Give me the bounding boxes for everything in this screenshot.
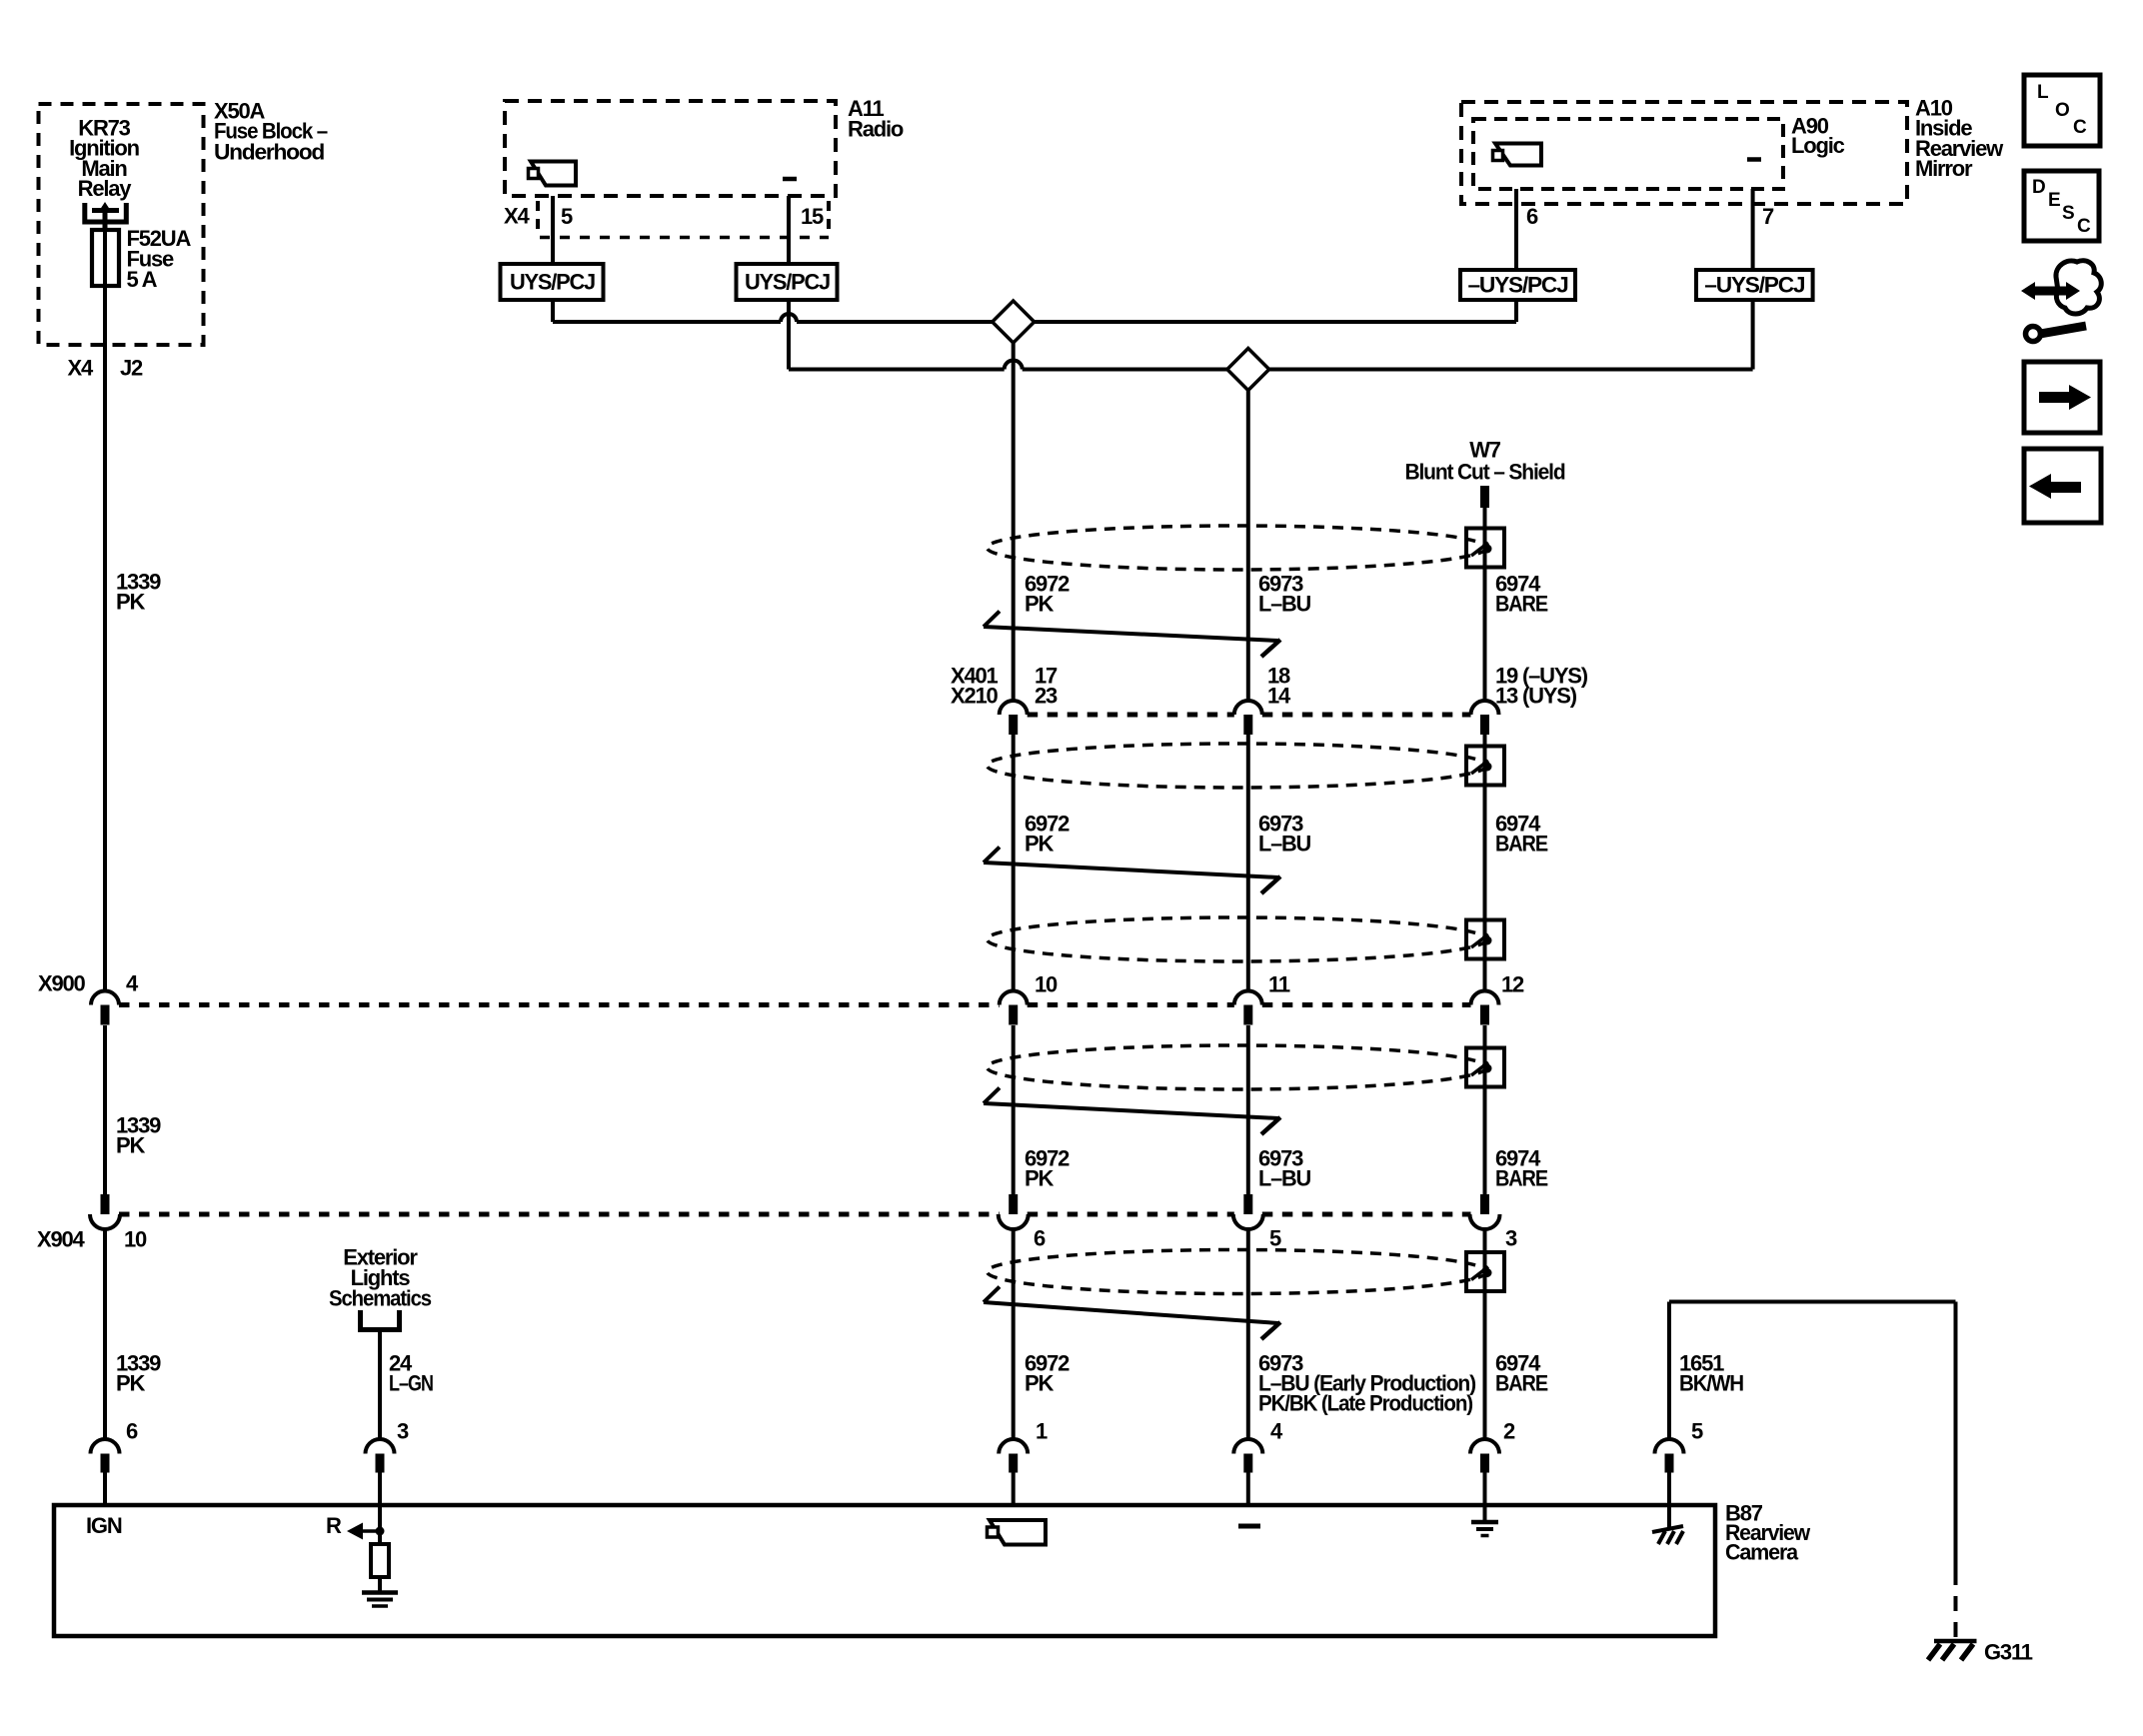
svg-text:G311: G311	[1984, 1639, 2033, 1664]
svg-text:BARE: BARE	[1495, 1370, 1547, 1395]
svg-text:PK: PK	[1025, 1165, 1054, 1190]
svg-text:3: 3	[1505, 1225, 1517, 1250]
svg-text:Logic: Logic	[1791, 133, 1845, 158]
svg-text:BK/WH: BK/WH	[1679, 1370, 1743, 1395]
svg-text:1: 1	[1036, 1418, 1048, 1443]
svg-text:E: E	[2048, 190, 2060, 211]
svg-text:5 A: 5 A	[127, 267, 158, 292]
svg-text:PK: PK	[1025, 831, 1054, 856]
svg-text:C: C	[2073, 117, 2087, 138]
svg-text:PK: PK	[1025, 591, 1054, 616]
svg-text:J2: J2	[120, 355, 143, 380]
svg-text:5: 5	[1269, 1225, 1281, 1250]
svg-text:L: L	[2037, 82, 2049, 103]
svg-text:Mirror: Mirror	[1915, 156, 1973, 181]
svg-text:PK: PK	[116, 589, 145, 614]
svg-text:PK: PK	[116, 1370, 145, 1395]
svg-text:PK/BK (Late Production): PK/BK (Late Production)	[1258, 1390, 1473, 1415]
svg-text:X4: X4	[67, 355, 93, 380]
svg-text:PK: PK	[116, 1132, 145, 1157]
svg-text:UYS/PCJ: UYS/PCJ	[510, 269, 595, 294]
svg-text:BARE: BARE	[1495, 591, 1547, 616]
svg-text:13 (UYS): 13 (UYS)	[1495, 683, 1577, 708]
svg-text:BARE: BARE	[1495, 831, 1547, 856]
svg-text:S: S	[2062, 203, 2074, 224]
svg-text:D: D	[2032, 177, 2045, 198]
svg-text:L–BU: L–BU	[1258, 1165, 1310, 1190]
svg-text:Schematics: Schematics	[329, 1285, 432, 1310]
svg-text:L–BU: L–BU	[1258, 831, 1310, 856]
svg-text:3: 3	[397, 1418, 409, 1443]
svg-text:Blunt Cut – Shield: Blunt Cut – Shield	[1405, 459, 1565, 484]
svg-text:UYS/PCJ: UYS/PCJ	[745, 269, 830, 294]
svg-text:C: C	[2077, 216, 2091, 237]
svg-text:Radio: Radio	[848, 116, 904, 141]
svg-text:Relay: Relay	[78, 176, 133, 201]
svg-text:X900: X900	[38, 970, 86, 995]
svg-text:Underhood: Underhood	[214, 139, 324, 164]
svg-text:6: 6	[126, 1418, 138, 1443]
svg-text:–UYS/PCJ: –UYS/PCJ	[1468, 272, 1568, 297]
svg-text:X4: X4	[504, 203, 530, 228]
svg-text:23: 23	[1035, 683, 1058, 708]
svg-text:7: 7	[1762, 204, 1774, 229]
svg-text:6: 6	[1526, 204, 1538, 229]
svg-text:14: 14	[1267, 683, 1291, 708]
svg-text:11: 11	[1268, 971, 1290, 996]
svg-text:10: 10	[1035, 971, 1058, 996]
svg-text:12: 12	[1501, 971, 1524, 996]
svg-text:L–BU: L–BU	[1258, 591, 1310, 616]
svg-text:IGN: IGN	[86, 1513, 122, 1538]
svg-text:BARE: BARE	[1495, 1165, 1547, 1190]
svg-text:2: 2	[1503, 1418, 1515, 1443]
svg-text:X210: X210	[951, 683, 999, 708]
svg-text:–UYS/PCJ: –UYS/PCJ	[1704, 272, 1804, 297]
svg-text:5: 5	[561, 204, 573, 229]
svg-text:L–GN: L–GN	[389, 1370, 433, 1395]
svg-text:5: 5	[1691, 1418, 1703, 1443]
svg-text:15: 15	[801, 204, 824, 229]
svg-text:6: 6	[1034, 1225, 1046, 1250]
svg-text:Camera: Camera	[1725, 1539, 1799, 1564]
svg-text:X904: X904	[37, 1226, 86, 1251]
svg-text:PK: PK	[1025, 1370, 1054, 1395]
svg-text:R: R	[326, 1513, 342, 1538]
svg-text:10: 10	[124, 1226, 147, 1251]
svg-text:O: O	[2055, 100, 2069, 121]
